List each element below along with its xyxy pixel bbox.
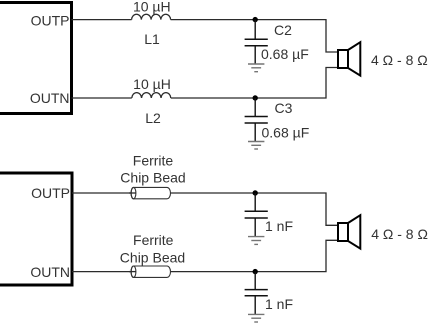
svg-text:1 nF: 1 nF: [265, 218, 293, 234]
svg-text:L2: L2: [145, 110, 161, 126]
svg-text:10 µH: 10 µH: [133, 0, 171, 14]
svg-text:0.68 µF: 0.68 µF: [261, 46, 309, 62]
svg-text:Chip Bead: Chip Bead: [120, 170, 185, 186]
svg-text:10 µH: 10 µH: [133, 76, 171, 92]
svg-text:C3: C3: [275, 100, 293, 116]
svg-text:4 Ω - 8 Ω: 4 Ω - 8 Ω: [371, 52, 428, 68]
svg-text:L1: L1: [144, 31, 160, 47]
svg-text:4 Ω - 8 Ω: 4 Ω - 8 Ω: [371, 226, 428, 242]
svg-text:Chip Bead: Chip Bead: [120, 249, 185, 265]
svg-text:C2: C2: [274, 22, 292, 38]
svg-text:Ferrite: Ferrite: [133, 232, 174, 248]
svg-text:OUTN: OUTN: [30, 90, 70, 106]
svg-text:OUTP: OUTP: [31, 185, 70, 201]
svg-text:1 nF: 1 nF: [265, 296, 293, 312]
svg-text:OUTN: OUTN: [30, 264, 70, 280]
svg-text:Ferrite: Ferrite: [133, 153, 174, 169]
svg-text:0.68 µF: 0.68 µF: [262, 125, 310, 141]
svg-text:OUTP: OUTP: [31, 13, 70, 29]
